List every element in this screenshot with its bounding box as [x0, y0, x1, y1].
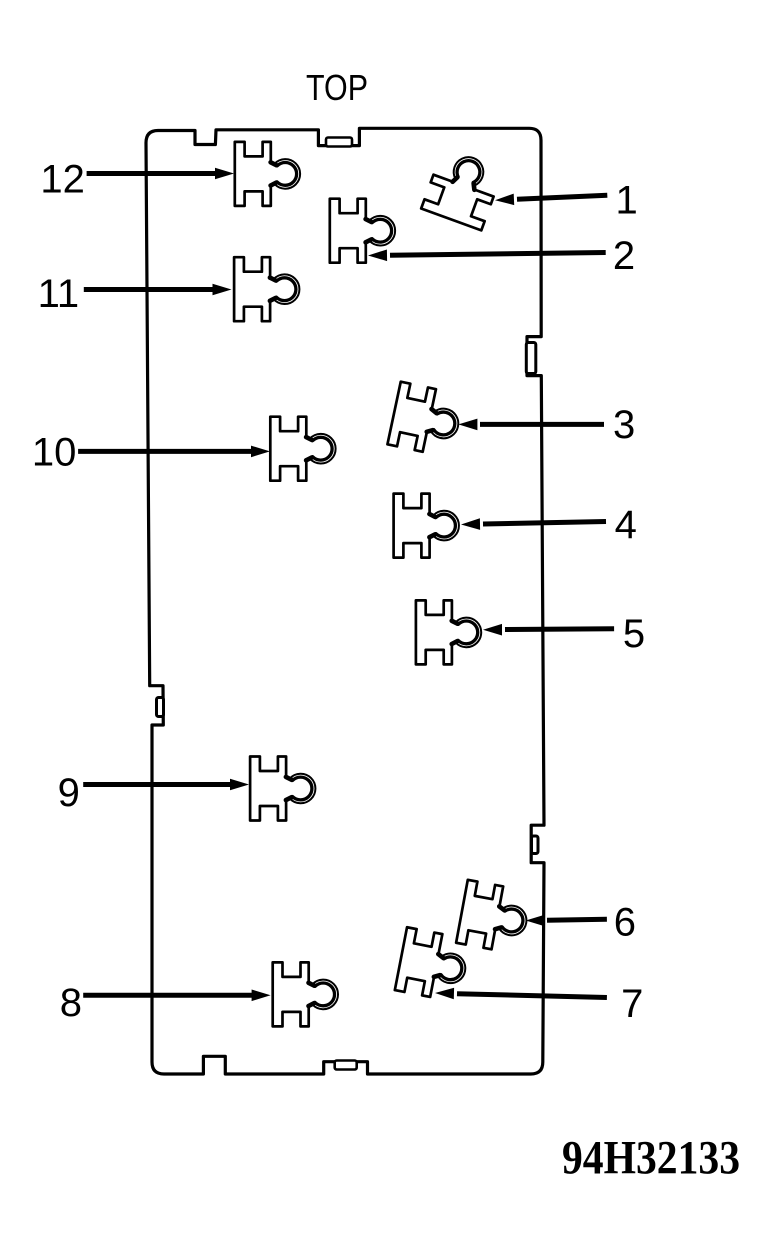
svg-text:TOP: TOP: [306, 67, 368, 108]
board outline: [146, 128, 544, 1074]
svg-text:7: 7: [621, 982, 643, 1026]
leader arrow 3: [458, 419, 604, 431]
leader arrow 4: [461, 518, 606, 530]
svg-text:1: 1: [615, 179, 637, 223]
terminal 11: [234, 257, 299, 321]
svg-text:12: 12: [40, 157, 85, 201]
terminal 2: [330, 199, 395, 263]
terminal 8: [273, 962, 338, 1026]
left edge slot tab: [157, 698, 164, 717]
leader arrow 2: [368, 250, 606, 262]
terminal 7: [395, 927, 471, 1002]
leader arrow 1: [495, 194, 607, 206]
terminal 6: [456, 880, 532, 955]
terminal 4: [394, 494, 459, 558]
leader arrow 8: [83, 990, 270, 1002]
svg-text:9: 9: [58, 771, 80, 815]
svg-text:11: 11: [38, 272, 80, 316]
svg-text:6: 6: [614, 901, 636, 945]
terminal 1: [421, 147, 503, 230]
svg-text:5: 5: [623, 612, 645, 656]
leader arrow 5: [483, 624, 614, 636]
terminal 9: [250, 757, 315, 821]
leader arrow 12: [87, 168, 234, 180]
leader arrow 6: [526, 915, 607, 927]
svg-text:10: 10: [32, 431, 77, 475]
terminal 10: [270, 417, 335, 481]
leader arrow 10: [78, 446, 270, 458]
svg-text:8: 8: [60, 981, 82, 1025]
svg-text:4: 4: [615, 503, 637, 547]
terminal 3: [387, 382, 464, 458]
right edge lower slot tab: [532, 836, 539, 854]
svg-text:2: 2: [613, 234, 635, 278]
leader arrow 9: [83, 779, 249, 791]
svg-text:3: 3: [613, 403, 635, 447]
svg-text:94H32133: 94H32133: [562, 1131, 740, 1184]
terminal 12: [235, 142, 300, 206]
leader arrow 7: [435, 988, 607, 1000]
bottom edge slot tab: [335, 1061, 357, 1070]
right edge upper slot tab: [526, 343, 536, 374]
leader arrow 11: [84, 284, 232, 296]
terminal 5: [416, 600, 481, 664]
top edge slot tab: [326, 138, 352, 147]
